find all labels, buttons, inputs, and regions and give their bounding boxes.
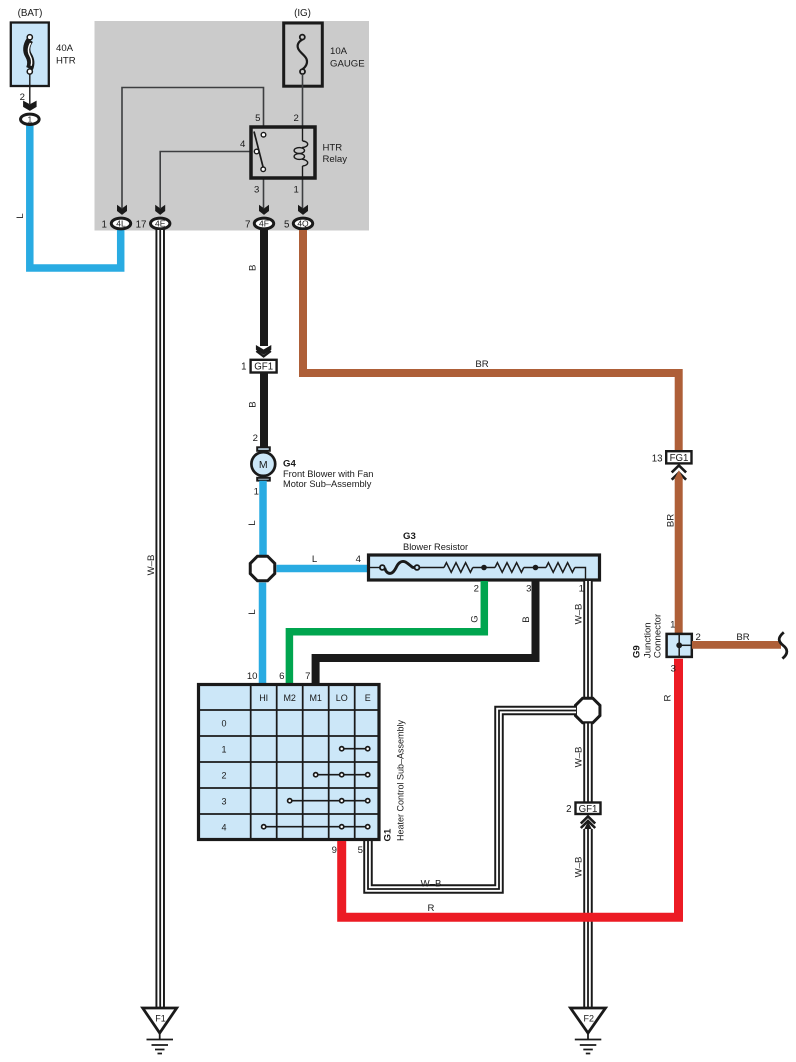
resistor element 3 — [546, 563, 575, 573]
svg-text:W–B: W–B — [574, 604, 585, 625]
heater control header labels — [259, 693, 371, 703]
label B (motor wire) — [248, 401, 259, 407]
wire W-B from 4E to ground F1 — [155, 229, 165, 1008]
svg-text:G9: G9 — [632, 645, 643, 658]
wire R heater control pin 9 to junction connector G9 — [342, 659, 679, 918]
label B (resistor to heater control) — [521, 616, 532, 622]
wire BR G9 to right (continues) — [692, 641, 781, 649]
svg-text:(IG): (IG) — [294, 8, 311, 19]
svg-text:7: 7 — [305, 671, 310, 682]
heater control switch row 2 — [314, 773, 370, 777]
svg-text:BR: BR — [736, 632, 749, 643]
heater control switch row 3 — [288, 799, 370, 803]
relay pin 5 label — [255, 113, 260, 124]
svg-text:7: 7 — [245, 219, 250, 230]
svg-text:B: B — [248, 401, 259, 407]
junction connector G9 — [667, 633, 692, 657]
junction block 1 GF1 — [241, 360, 276, 373]
relay coil — [294, 128, 308, 179]
relay pin 3 label — [254, 185, 259, 196]
svg-text:Front Blower with Fan: Front Blower with Fan — [283, 469, 373, 479]
label W-B (GF1 to ground) — [574, 857, 585, 878]
wire relay pin 3 to connector 4F — [263, 179, 265, 208]
arrow into 4L — [117, 205, 127, 215]
svg-text:10A: 10A — [330, 46, 348, 57]
svg-text:HTR: HTR — [56, 56, 76, 67]
svg-text:B: B — [248, 265, 259, 271]
motor G4 top tab — [257, 447, 270, 451]
svg-text:FG1: FG1 — [670, 453, 689, 464]
svg-text:F2: F2 — [584, 1014, 595, 1024]
label W-B (left wire) — [146, 555, 157, 576]
arrow into 2 GF1 — [581, 817, 595, 830]
resistor element 1 (HI) — [444, 563, 495, 573]
svg-text:1: 1 — [579, 584, 584, 595]
label R (horizontal) — [428, 903, 435, 914]
label W-B (resistor to node) — [574, 604, 585, 625]
wire BR 4Q to FG1 — [303, 230, 679, 451]
heater control switch row 1 — [340, 747, 370, 751]
wire inside G3 to pin 1 — [575, 568, 586, 579]
connector 4L — [102, 218, 131, 230]
svg-text:G1: G1 — [382, 828, 393, 841]
svg-text:Motor Sub–Assembly: Motor Sub–Assembly — [283, 479, 372, 489]
wire W-B heater control pin 5 to octagon node — [368, 711, 576, 890]
svg-text:HTR: HTR — [323, 143, 343, 154]
svg-text:6: 6 — [279, 671, 284, 682]
arrow into 4F — [259, 205, 269, 215]
junction block 2 GF1 — [566, 803, 600, 816]
svg-text:3: 3 — [254, 185, 259, 196]
continuation hook — [779, 632, 787, 658]
label L (motor to node) — [247, 520, 258, 526]
svg-text:G: G — [470, 615, 481, 622]
label pin 1 of blower resistor — [579, 584, 584, 595]
arrow into connector 1 — [23, 101, 36, 111]
svg-text:13: 13 — [652, 453, 663, 464]
svg-text:3: 3 — [671, 663, 676, 674]
label pin 7 heater control — [305, 671, 310, 682]
wire B from 4F to GF1 — [260, 230, 268, 346]
arrow into 13 FG1 — [672, 465, 686, 479]
connector 4E — [136, 218, 170, 230]
svg-text:M1: M1 — [309, 693, 322, 703]
relay pin 1 label — [294, 185, 299, 196]
svg-text:2: 2 — [221, 771, 226, 781]
wire BR FG1 to junction connector G9 — [675, 478, 683, 635]
label G — [470, 615, 481, 622]
wire W-B resistor pin 1 to octagon node — [583, 581, 593, 698]
svg-text:2: 2 — [566, 804, 571, 815]
pin 2 of fusible link — [20, 74, 30, 104]
connector 4Q — [284, 218, 313, 230]
svg-text:GF1: GF1 — [579, 804, 598, 815]
junction node octagon (blue) — [250, 556, 275, 581]
relay block background — [95, 21, 370, 231]
label pin 1 of G9 — [670, 620, 675, 631]
svg-text:Heater Control Sub–Assembly: Heater Control Sub–Assembly — [395, 719, 405, 841]
svg-text:W–B: W–B — [574, 747, 585, 768]
svg-text:2: 2 — [294, 113, 299, 124]
label pin 3 of blower resistor — [526, 584, 531, 595]
heater control G1 box — [199, 685, 380, 840]
label BR (vertical) — [666, 514, 677, 527]
label pin 5 heater control — [358, 845, 363, 856]
svg-text:3: 3 — [526, 584, 531, 595]
label 10A GAUGE — [330, 46, 365, 70]
motor G4 bottom tab — [257, 478, 270, 481]
svg-text:W–B: W–B — [421, 879, 442, 890]
arrow into 4Q — [298, 205, 308, 215]
svg-text:W–B: W–B — [574, 857, 585, 878]
label pin 6 heater control — [279, 671, 284, 682]
svg-text:2: 2 — [253, 433, 258, 444]
wire W-B GF1 to ground F2 — [583, 829, 593, 1008]
svg-text:Connector: Connector — [653, 613, 664, 658]
ground F2 — [571, 1008, 606, 1054]
label BR (right) — [736, 632, 749, 643]
svg-text:1: 1 — [102, 219, 107, 230]
svg-text:4E: 4E — [155, 219, 166, 229]
fuse 10A GAUGE (IG) — [284, 23, 323, 86]
svg-text:1: 1 — [27, 114, 32, 124]
label pin 4 of blower resistor — [356, 554, 362, 565]
svg-text:G3: G3 — [403, 531, 416, 542]
label W-B (heater control to node) — [421, 879, 442, 890]
fusible link 40A HTR (BAT) — [11, 23, 49, 87]
wire B resistor pin 3 to heater control pin 7 — [316, 581, 536, 683]
label 40A HTR — [56, 43, 76, 67]
svg-text:GAUGE: GAUGE — [330, 59, 365, 70]
svg-text:4: 4 — [221, 823, 226, 833]
svg-text:2: 2 — [474, 584, 479, 595]
svg-text:R: R — [663, 694, 674, 701]
svg-text:LO: LO — [336, 693, 348, 703]
svg-text:M2: M2 — [283, 693, 296, 703]
label (BAT) — [18, 8, 43, 19]
label W-B (node to GF1) — [574, 747, 585, 768]
svg-text:HI: HI — [259, 693, 268, 703]
label pin 3 of G9 — [671, 663, 676, 674]
label L (node to heater control) — [247, 609, 258, 615]
relay pin 2 label — [294, 113, 299, 124]
wire B from GF1 to blower motor — [260, 373, 268, 447]
junction node octagon (W-B) — [575, 698, 600, 723]
relay switch blade — [254, 132, 266, 172]
label G3 Blower Resistor — [403, 531, 468, 552]
label G9 Junction Connector — [632, 613, 664, 658]
label R (vertical) — [663, 694, 674, 701]
heater control row labels — [221, 719, 226, 833]
blower resistor G3 box — [369, 555, 600, 580]
label G4 Front Blower with Fan Motor Sub-Assembly — [283, 459, 373, 490]
svg-text:B: B — [521, 616, 532, 622]
arrow into 4E — [155, 205, 165, 215]
svg-text:10: 10 — [247, 671, 258, 682]
label L (node to resistor) — [312, 554, 318, 565]
thermal fuse inside G3 — [380, 561, 444, 573]
svg-text:4F: 4F — [259, 219, 269, 229]
wire L motor to junction node — [259, 481, 267, 556]
motor G4 — [251, 452, 275, 476]
wire inside G3 from pin 4 — [369, 567, 380, 569]
svg-text:1: 1 — [670, 620, 675, 631]
svg-text:40A: 40A — [56, 43, 74, 54]
connector oval 1 — [21, 114, 40, 124]
wire L node down to heater control pin 10 — [259, 583, 267, 684]
label G1 Heater Control Sub-Assembly — [382, 719, 405, 841]
svg-text:1: 1 — [254, 486, 259, 497]
relay HTR Relay box — [251, 127, 315, 178]
label BR (horizontal top) — [475, 359, 488, 370]
svg-text:L: L — [247, 520, 258, 526]
svg-text:W–B: W–B — [146, 555, 157, 576]
connector 4F — [245, 218, 274, 230]
svg-text:5: 5 — [358, 845, 363, 856]
svg-text:1: 1 — [241, 362, 246, 373]
svg-text:L: L — [15, 213, 26, 219]
svg-text:0: 0 — [221, 719, 226, 729]
label pin 2 of G9 — [696, 632, 701, 643]
svg-text:F1: F1 — [155, 1014, 166, 1024]
label pin 9 heater control — [332, 845, 337, 856]
svg-text:4: 4 — [240, 139, 246, 150]
svg-text:17: 17 — [136, 219, 147, 230]
svg-text:5: 5 — [255, 113, 260, 124]
svg-text:L: L — [247, 609, 258, 615]
arrow into 1 GF1 — [256, 345, 271, 356]
svg-text:4L: 4L — [116, 219, 126, 229]
svg-text:Blower Resistor: Blower Resistor — [403, 542, 468, 552]
svg-text:BR: BR — [666, 514, 677, 527]
heater control switch row 4 — [262, 825, 370, 829]
label HTR Relay — [323, 143, 348, 166]
wire IG fuse to relay pin 2 — [302, 74, 304, 127]
wire G resistor pin 2 to heater control pin 6 — [289, 581, 484, 683]
junction block 13 FG1 — [652, 451, 692, 464]
wire: battery blue L wire to 4L — [30, 125, 121, 269]
node dot at pin 2 tap — [481, 565, 487, 571]
relay pin 4 label — [240, 139, 246, 150]
svg-text:G4: G4 — [283, 459, 296, 470]
label pin 1 of motor — [254, 486, 259, 497]
svg-text:M: M — [259, 459, 268, 471]
svg-text:4: 4 — [356, 554, 362, 565]
label L (battery wire) — [15, 213, 26, 219]
wire relay pin 1 to connector 4Q — [302, 179, 304, 208]
wire L node to blower resistor pin 4 — [277, 565, 369, 573]
svg-text:9: 9 — [332, 845, 337, 856]
svg-text:1: 1 — [294, 185, 299, 196]
label (IG) — [294, 8, 311, 19]
svg-text:5: 5 — [284, 219, 290, 230]
svg-text:E: E — [365, 693, 371, 703]
svg-text:(BAT): (BAT) — [18, 8, 43, 19]
label B (4F wire) — [248, 265, 259, 271]
wire relay pin 4 to connector 4E — [160, 152, 250, 209]
svg-text:4Q: 4Q — [297, 219, 309, 229]
resistor element 2 — [495, 563, 546, 573]
wire relay pin 5 to connector 4L — [122, 88, 264, 209]
svg-text:1: 1 — [221, 745, 226, 755]
node dot at pin 3 tap — [533, 565, 539, 571]
svg-text:3: 3 — [221, 797, 226, 807]
ground F1 — [143, 1008, 177, 1054]
svg-text:BR: BR — [475, 359, 488, 370]
wire W-B node to GF1 (2) — [583, 724, 593, 802]
svg-text:Relay: Relay — [323, 154, 348, 165]
svg-text:R: R — [428, 903, 435, 914]
svg-text:GF1: GF1 — [254, 362, 273, 373]
label pin 2 of blower resistor — [474, 584, 479, 595]
heater control grid lines — [199, 685, 380, 840]
label pin 10 heater control — [247, 671, 258, 682]
label pin 2 of motor — [253, 433, 258, 444]
svg-text:L: L — [312, 554, 318, 565]
